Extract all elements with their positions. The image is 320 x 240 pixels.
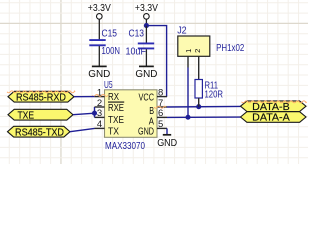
wire A to DATA-A bbox=[167, 116, 241, 118]
pin 2 RXE bbox=[95, 98, 125, 114]
wire cap to gnd bbox=[98, 46, 100, 66]
svg-text:3: 3 bbox=[97, 108, 102, 119]
svg-text:6: 6 bbox=[158, 108, 163, 119]
power +3.3V at C15 bbox=[88, 2, 111, 40]
svg-text:GND: GND bbox=[135, 68, 157, 80]
svg-text:4: 4 bbox=[97, 119, 102, 130]
wire pin5 to gnd bbox=[166, 128, 168, 134]
pin 1 RX bbox=[95, 87, 120, 103]
svg-text:5: 5 bbox=[158, 119, 163, 130]
pin R11 bottom to B bbox=[198, 98, 200, 107]
capacitor C15 bbox=[89, 29, 120, 58]
ground under C13 bbox=[135, 66, 157, 80]
wire +3V3 dot to C13 top plate bbox=[145, 26, 147, 44]
power +3.3V at C13 bbox=[135, 2, 158, 26]
junction J2 pin1 to A bbox=[185, 115, 190, 120]
svg-text:+3.3V: +3.3V bbox=[135, 2, 158, 14]
wire +3V3 to VCC pin 8 bbox=[146, 26, 166, 97]
wire B to DATA-B bbox=[167, 105, 241, 108]
svg-text:+3.3V: +3.3V bbox=[88, 2, 111, 14]
svg-text:8: 8 bbox=[158, 87, 163, 98]
global label DATA-A bbox=[241, 112, 307, 124]
pin 2 of J2 bbox=[198, 56, 200, 79]
svg-text:RXE: RXE bbox=[108, 103, 124, 114]
svg-text:C15: C15 bbox=[102, 29, 118, 40]
junction on +3V3 of C13 bbox=[144, 23, 149, 28]
svg-text:J2: J2 bbox=[177, 24, 187, 36]
ERC squiggle over DATA-B bbox=[242, 101, 307, 103]
svg-text:120R: 120R bbox=[205, 90, 224, 101]
junction node TXE bbox=[92, 111, 97, 116]
svg-text:PH1x02: PH1x02 bbox=[216, 42, 244, 54]
global label RS485-RXD bbox=[8, 91, 74, 103]
pin 8 VCC bbox=[139, 87, 168, 103]
global label RS485-TXD bbox=[8, 126, 71, 138]
svg-text:VCC: VCC bbox=[139, 92, 155, 103]
pin 4 TX bbox=[95, 119, 120, 137]
wire joining pins 2 and 3 bbox=[94, 107, 96, 117]
svg-text:MAX33070: MAX33070 bbox=[105, 140, 145, 152]
svg-text:GND: GND bbox=[157, 137, 177, 149]
ERC squiggle on pin 7 bbox=[154, 106, 166, 108]
IC U5 MAX33070 body bbox=[105, 90, 158, 138]
wire cap to gnd bbox=[145, 49, 147, 66]
svg-text:10uF: 10uF bbox=[126, 46, 147, 57]
wire TXE to junction bbox=[73, 113, 95, 115]
svg-text:B: B bbox=[149, 106, 154, 117]
wire RS485-RXD to pin1 bbox=[74, 96, 95, 98]
pin 1 of J2 bbox=[187, 56, 189, 67]
junction R11 to B bbox=[196, 104, 201, 109]
svg-text:C13: C13 bbox=[129, 29, 145, 40]
ground under C15 bbox=[88, 66, 110, 80]
pin 6 A bbox=[149, 108, 167, 127]
background grid bbox=[0, 0, 308, 164]
connector J2 bbox=[178, 36, 210, 56]
svg-text:1: 1 bbox=[184, 49, 193, 53]
pin 7 B bbox=[149, 98, 167, 117]
wire J2 pin1 down to A bbox=[187, 68, 189, 118]
ERC squiggle over pin 1 bbox=[92, 94, 108, 96]
svg-text:2: 2 bbox=[193, 49, 202, 53]
svg-text:GND: GND bbox=[138, 126, 154, 137]
svg-text:TX: TX bbox=[108, 126, 119, 137]
svg-text:RX: RX bbox=[108, 92, 119, 103]
svg-text:RS485-TXD: RS485-TXD bbox=[15, 127, 64, 138]
svg-text:RS485-RXD: RS485-RXD bbox=[16, 92, 66, 103]
svg-text:100N: 100N bbox=[102, 46, 121, 57]
svg-text:DATA-A: DATA-A bbox=[252, 113, 290, 124]
svg-text:TXE: TXE bbox=[108, 115, 124, 126]
ground at pin 5 bbox=[157, 135, 177, 149]
pin 3 TXE bbox=[95, 108, 125, 126]
ERC squiggle over RS485-RXD bbox=[7, 91, 75, 93]
svg-text:U5: U5 bbox=[104, 79, 113, 91]
wire RS485-TXD to pin4 bbox=[70, 128, 95, 131]
resistor R11 bbox=[195, 80, 202, 99]
global label DATA-B bbox=[241, 101, 307, 113]
pin 5 GND bbox=[138, 119, 167, 137]
svg-text:2: 2 bbox=[97, 98, 102, 109]
capacitor C13 bbox=[126, 29, 155, 58]
svg-text:TXE: TXE bbox=[18, 110, 35, 121]
global label TXE bbox=[8, 109, 73, 121]
